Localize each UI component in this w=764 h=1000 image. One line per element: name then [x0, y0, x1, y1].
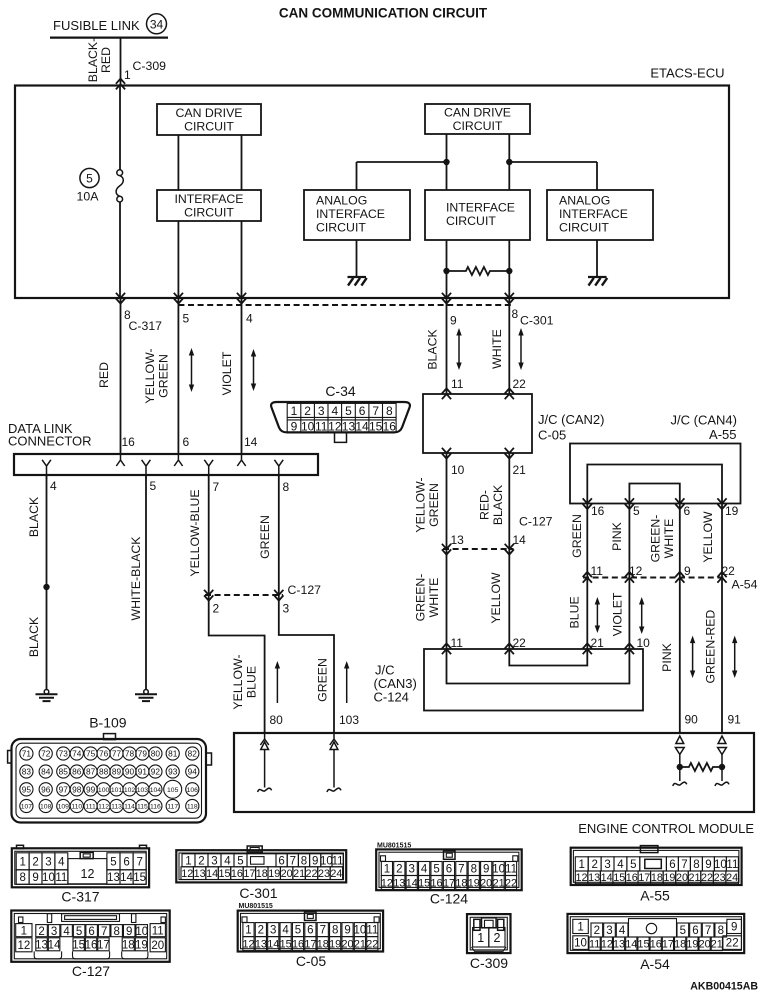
svg-text:20: 20: [281, 868, 293, 880]
svg-text:AKB00415AB: AKB00415AB: [690, 981, 758, 993]
J/C CAN3 inner bus (pins 22-21): [509, 649, 587, 666]
svg-text:4: 4: [50, 479, 57, 493]
svg-text:10: 10: [42, 872, 55, 884]
svg-text:1: 1: [384, 864, 390, 876]
svg-text:C-309: C-309: [470, 955, 508, 971]
ECM internal circuit continuation (pin 80): [258, 742, 272, 792]
svg-text:18: 18: [455, 877, 467, 889]
svg-text:C-301: C-301: [520, 314, 554, 328]
svg-text:95: 95: [22, 784, 32, 794]
svg-text:1: 1: [124, 68, 131, 82]
wire YELLOW-BLUE DLC pin 7: [208, 475, 210, 595]
svg-text:82: 82: [188, 749, 198, 759]
signal direction arrow e: [595, 597, 600, 633]
connector crossing arrows pin 5: [174, 293, 183, 304]
svg-text:GREEN: GREEN: [427, 483, 441, 527]
svg-text:WHITE: WHITE: [427, 578, 441, 618]
svg-text:13: 13: [451, 533, 465, 547]
svg-text:19: 19: [468, 877, 480, 889]
ECM terminal fork pin 80: [260, 733, 268, 745]
svg-text:88: 88: [99, 767, 109, 777]
svg-text:12: 12: [17, 940, 30, 952]
svg-text:10: 10: [637, 636, 651, 650]
connector C-127 crossing arrows pin 2: [204, 590, 213, 601]
svg-text:CIRCUIT: CIRCUIT: [316, 221, 366, 235]
svg-text:20: 20: [151, 940, 164, 952]
svg-text:13: 13: [194, 868, 206, 880]
svg-text:GREEN-: GREEN-: [649, 515, 663, 563]
svg-text:19: 19: [329, 938, 341, 950]
svg-text:CIRCUIT: CIRCUIT: [184, 206, 234, 220]
svg-text:MU801515: MU801515: [239, 903, 273, 910]
connector C-127 pictogram: [11, 911, 169, 962]
J/C CAN4 exit arrows pin 19: [717, 498, 726, 509]
svg-text:5: 5: [630, 859, 636, 871]
svg-text:1: 1: [245, 925, 251, 937]
svg-text:1: 1: [577, 922, 583, 934]
svg-text:5: 5: [633, 504, 640, 518]
junction dot ground wire: [43, 584, 49, 590]
svg-text:BLACK: BLACK: [27, 616, 41, 657]
wire WHITE-BLACK DLC pin 5 to ground: [145, 475, 147, 690]
svg-text:12: 12: [576, 872, 588, 884]
svg-text:11: 11: [589, 939, 600, 951]
svg-text:GREEN-RED: GREEN-RED: [704, 610, 718, 684]
svg-text:10: 10: [492, 864, 505, 876]
J/C CAN3 entry arrows pin 22: [505, 643, 514, 654]
dashed connector line C-317/C-301: [178, 304, 514, 306]
svg-text:6: 6: [669, 859, 675, 871]
C-127 crossing arrows pin 13: [442, 544, 451, 555]
wire YELLOW-BLUE jog to ECM pin 80: [209, 595, 265, 733]
svg-text:13: 13: [393, 877, 405, 889]
svg-text:1: 1: [477, 931, 484, 945]
svg-text:INTERFACE: INTERFACE: [174, 192, 243, 206]
wire color label BLACK-RED: [86, 38, 113, 82]
J/C CAN4 exit arrows pin 6: [675, 498, 684, 509]
svg-text:5: 5: [86, 172, 93, 186]
svg-text:22: 22: [505, 877, 517, 889]
wire color label YELLOW-GREEN (mid): [414, 477, 442, 532]
junction dot e: [677, 764, 683, 770]
svg-text:116: 116: [150, 804, 161, 811]
svg-text:19: 19: [686, 939, 698, 951]
svg-text:C-34: C-34: [325, 383, 356, 399]
wire PINK to ECM pin 90: [679, 578, 681, 734]
wire interface to pin 8: [508, 240, 510, 298]
svg-text:9: 9: [291, 420, 298, 434]
connector crossing arrows pin 8 C-301: [505, 293, 514, 304]
svg-text:100: 100: [98, 787, 110, 794]
svg-text:12: 12: [629, 564, 643, 578]
svg-text:16: 16: [85, 939, 98, 951]
svg-text:94: 94: [188, 767, 198, 777]
svg-text:ANALOG: ANALOG: [316, 194, 367, 208]
svg-text:16: 16: [122, 435, 136, 449]
wire interface to pin 4: [241, 221, 243, 298]
svg-text:4: 4: [63, 926, 70, 938]
fusible link bus bar: [50, 36, 168, 38]
svg-text:14: 14: [244, 435, 258, 449]
svg-text:22: 22: [722, 564, 736, 578]
svg-text:105: 105: [167, 787, 179, 794]
svg-text:2: 2: [213, 602, 220, 616]
connector C-34 pin grid: [287, 403, 396, 432]
svg-text:5: 5: [345, 404, 352, 418]
svg-text:A-54: A-54: [640, 956, 670, 972]
svg-text:24: 24: [330, 868, 342, 880]
svg-text:5: 5: [295, 925, 301, 937]
ECM internal circuit continuation (pin 103): [327, 742, 341, 792]
connector B-109 body: [8, 734, 212, 823]
svg-text:17: 17: [97, 939, 110, 951]
svg-text:7: 7: [290, 855, 296, 867]
svg-text:C-317: C-317: [61, 889, 99, 905]
svg-text:A-55: A-55: [709, 427, 736, 442]
svg-text:C-301: C-301: [239, 885, 277, 901]
svg-text:4: 4: [617, 859, 624, 871]
svg-text:4: 4: [224, 855, 231, 867]
svg-text:5: 5: [183, 312, 190, 326]
svg-text:6: 6: [446, 864, 452, 876]
ENGINE CONTROL MODULE box: [234, 733, 754, 812]
wire left analog interface to ground: [356, 240, 358, 277]
svg-text:21: 21: [493, 877, 505, 889]
svg-text:4: 4: [246, 312, 253, 326]
svg-text:14: 14: [48, 939, 61, 951]
ground (body earth) left: [36, 690, 58, 702]
svg-text:11: 11: [55, 872, 67, 884]
wire GREEN-RED to ECM pin 91: [721, 578, 723, 734]
svg-text:C-05: C-05: [296, 953, 327, 969]
svg-text:2: 2: [594, 925, 600, 937]
svg-text:16: 16: [626, 872, 638, 884]
svg-text:14: 14: [355, 420, 369, 434]
wire interface to pin 5: [177, 221, 179, 298]
DLC terminal fork pin 14: [237, 454, 245, 466]
connector C-301 pictogram: [176, 846, 346, 882]
wire BLUE to J/C (CAN3) pin 21: [586, 578, 588, 650]
svg-text:85: 85: [59, 767, 69, 777]
svg-text:YELLOW: YELLOW: [489, 572, 503, 624]
junction dot a: [443, 159, 449, 165]
svg-text:9: 9: [450, 314, 457, 328]
svg-text:10: 10: [451, 463, 465, 477]
svg-text:11: 11: [332, 855, 344, 867]
joint connector J/C (CAN2) C-05 box: [423, 394, 532, 453]
svg-text:110: 110: [71, 804, 82, 811]
svg-text:YELLOW: YELLOW: [701, 511, 715, 563]
svg-text:17: 17: [662, 939, 674, 951]
junction dot b: [506, 159, 512, 165]
svg-text:13: 13: [35, 939, 48, 951]
signal direction arrow h: [732, 636, 737, 678]
svg-text:11: 11: [366, 925, 378, 937]
svg-text:10: 10: [135, 926, 148, 938]
svg-text:6: 6: [692, 925, 698, 937]
svg-text:10: 10: [354, 925, 367, 937]
svg-text:3: 3: [51, 926, 57, 938]
svg-text:5: 5: [76, 926, 82, 938]
svg-text:C-309: C-309: [133, 59, 167, 73]
DLC terminal fork pin 6: [174, 454, 182, 466]
connector C-127 crossing arrows pin 3: [274, 590, 283, 601]
J/C CAN4 inner bus (pins 5-6): [629, 484, 679, 504]
svg-text:104: 104: [150, 787, 162, 794]
wire GREEN DLC pin 8: [278, 475, 280, 595]
wire CAN drive to interface (left a): [177, 135, 179, 190]
svg-text:13: 13: [613, 939, 625, 951]
svg-text:22: 22: [513, 377, 527, 391]
svg-text:C-124: C-124: [374, 690, 409, 705]
svg-text:BLUE: BLUE: [244, 666, 258, 698]
wire YELLOW A-55 to A-54: [721, 504, 723, 578]
svg-text:76: 76: [99, 749, 109, 759]
svg-text:9: 9: [684, 564, 691, 578]
svg-text:PINK: PINK: [610, 521, 624, 550]
svg-text:11: 11: [451, 636, 464, 650]
ETACS-ECU box: [15, 86, 729, 299]
svg-text:4: 4: [421, 864, 428, 876]
svg-text:79: 79: [138, 749, 148, 759]
svg-text:C-127: C-127: [72, 963, 110, 979]
svg-text:21: 21: [591, 636, 605, 650]
ANALOG INTERFACE CIRCUIT box (right): [547, 190, 653, 240]
signal direction arrow b: [251, 349, 256, 391]
svg-text:2: 2: [38, 926, 44, 938]
svg-text:103: 103: [339, 713, 359, 727]
signal direction arrow (green): [344, 661, 349, 703]
junction dot d: [506, 268, 512, 274]
terminating resistor (ETACS): [447, 267, 510, 275]
ECM terminal fork pin 103: [330, 733, 338, 745]
svg-text:17: 17: [243, 868, 255, 880]
svg-text:9: 9: [126, 926, 132, 938]
svg-text:78: 78: [125, 749, 135, 759]
svg-text:16: 16: [650, 939, 662, 951]
svg-text:WHITE-BLACK: WHITE-BLACK: [129, 536, 143, 621]
J/C CAN3 inner bus (pins 11-10): [447, 649, 630, 684]
svg-text:87: 87: [86, 767, 96, 777]
svg-text:20: 20: [480, 877, 492, 889]
svg-text:14: 14: [120, 872, 133, 884]
connector C-309 pictogram: [467, 914, 511, 953]
svg-text:11: 11: [315, 420, 328, 434]
svg-text:15: 15: [418, 877, 430, 889]
J/C CAN4 exit arrows pin 16: [583, 498, 592, 509]
svg-text:9: 9: [32, 872, 38, 884]
svg-text:16: 16: [591, 504, 605, 518]
connector C-124 pictogram: [376, 849, 522, 890]
signal direction arrow g: [690, 636, 695, 678]
svg-text:ENGINE CONTROL MODULE: ENGINE CONTROL MODULE: [578, 821, 754, 836]
svg-text:34: 34: [150, 17, 164, 31]
svg-text:YELLOW-: YELLOW-: [143, 348, 157, 403]
svg-text:18: 18: [651, 872, 663, 884]
svg-text:12: 12: [181, 868, 193, 880]
J/C CAN3 entry arrows pin 10: [625, 643, 634, 654]
wire VIOLET to DLC pin 14: [241, 298, 243, 454]
chassis ground (right analog): [588, 277, 607, 286]
svg-text:1: 1: [21, 925, 27, 937]
connector crossing arrows pin 4: [237, 293, 246, 304]
svg-text:3: 3: [606, 925, 612, 937]
svg-text:96: 96: [41, 784, 51, 794]
svg-text:J/C (CAN4): J/C (CAN4): [671, 413, 737, 428]
svg-text:24: 24: [726, 872, 738, 884]
svg-text:15: 15: [637, 939, 649, 951]
wire color label RED-BLACK: [478, 484, 506, 525]
svg-text:18: 18: [256, 868, 268, 880]
dashed connector line C-127: [205, 594, 283, 596]
svg-text:22: 22: [701, 872, 713, 884]
junction dot f: [719, 764, 725, 770]
svg-text:89: 89: [112, 767, 122, 777]
svg-text:2: 2: [198, 855, 204, 867]
svg-text:22: 22: [513, 636, 527, 650]
wire CAN drive to interface (right b): [508, 134, 510, 190]
wire YELLOW-GREEN to C-127: [446, 453, 448, 549]
svg-text:7: 7: [372, 404, 379, 418]
wire CAN drive to interface (right a): [446, 134, 448, 190]
svg-text:14: 14: [625, 939, 637, 951]
svg-text:14: 14: [513, 533, 527, 547]
svg-text:23: 23: [714, 872, 726, 884]
svg-text:75: 75: [86, 749, 96, 759]
svg-text:9: 9: [483, 864, 489, 876]
svg-text:C-05: C-05: [538, 428, 566, 443]
wire WHITE to J/C (CAN2): [508, 298, 510, 394]
svg-text:3: 3: [604, 859, 610, 871]
svg-text:83: 83: [22, 767, 32, 777]
svg-text:WHITE: WHITE: [490, 329, 504, 369]
data link connector box: [14, 454, 318, 475]
svg-text:6: 6: [359, 404, 366, 418]
svg-text:111: 111: [85, 804, 96, 811]
svg-text:7: 7: [213, 480, 220, 494]
J/C CAN2 entry arrows pin 22: [505, 388, 514, 399]
svg-text:84: 84: [41, 767, 51, 777]
svg-text:1: 1: [579, 859, 585, 871]
svg-text:PINK: PINK: [660, 642, 674, 671]
J/C CAN4 inner bus (pins 16-19): [587, 465, 722, 504]
svg-text:15: 15: [369, 420, 383, 434]
wire color label YELLOW-BLUE (lower): [231, 654, 258, 709]
svg-text:115: 115: [137, 804, 148, 811]
svg-text:6: 6: [88, 926, 94, 938]
wire BLACK to J/C (CAN2): [446, 298, 448, 394]
wire VIOLET to J/C (CAN3) pin 10: [628, 578, 630, 650]
wire GREEN-WHITE to J/C (CAN3): [446, 549, 448, 649]
svg-text:97: 97: [59, 784, 69, 794]
svg-text:3: 3: [409, 864, 415, 876]
svg-text:WHITE: WHITE: [662, 519, 676, 559]
svg-text:BLACK-: BLACK-: [86, 38, 100, 82]
wire RED to DLC pin 16: [120, 298, 122, 454]
svg-text:14: 14: [206, 868, 218, 880]
junction dot c: [443, 268, 449, 274]
svg-text:YELLOW-: YELLOW-: [414, 477, 428, 532]
svg-text:23: 23: [318, 868, 330, 880]
svg-text:2: 2: [32, 856, 38, 868]
svg-text:15: 15: [219, 868, 231, 880]
svg-text:CIRCUIT: CIRCUIT: [446, 214, 496, 228]
svg-text:98: 98: [72, 784, 82, 794]
joint connector J/C (CAN3) C-124 box: [424, 649, 643, 711]
svg-text:18: 18: [122, 939, 135, 951]
dashed connector line A-54: [583, 577, 727, 579]
svg-text:90: 90: [685, 713, 699, 727]
fuse number 5 circle: [80, 168, 99, 187]
J/C CAN2 exit arrows pin 21: [505, 448, 514, 459]
svg-text:8: 8: [512, 307, 519, 321]
svg-text:10A: 10A: [77, 190, 100, 204]
svg-text:19: 19: [135, 939, 148, 951]
wire GREEN A-55 to A-54: [586, 504, 588, 578]
connector crossing arrows pin 9: [442, 293, 451, 304]
svg-text:19: 19: [663, 872, 675, 884]
svg-text:YELLOW-: YELLOW-: [231, 654, 245, 709]
svg-text:CIRCUIT: CIRCUIT: [184, 120, 234, 134]
signal direction arrow c: [456, 328, 461, 370]
svg-text:CONNECTOR: CONNECTOR: [8, 434, 92, 449]
fuse 5 (10A) symbol on wire: [116, 86, 123, 299]
svg-text:VIOLET: VIOLET: [220, 351, 234, 395]
svg-text:A-55: A-55: [640, 888, 670, 904]
svg-text:8: 8: [471, 864, 477, 876]
svg-text:16: 16: [431, 877, 443, 889]
svg-text:5: 5: [433, 864, 439, 876]
svg-text:92: 92: [151, 767, 161, 777]
svg-text:J/C (CAN2): J/C (CAN2): [538, 412, 604, 427]
svg-text:INTERFACE: INTERFACE: [316, 207, 385, 221]
svg-text:8: 8: [113, 926, 119, 938]
DLC terminal fork pin 16: [116, 454, 124, 466]
svg-text:5: 5: [237, 855, 243, 867]
svg-text:15: 15: [133, 872, 146, 884]
svg-text:12: 12: [601, 939, 613, 951]
svg-text:112: 112: [98, 804, 109, 811]
connector crossing arrows pin 8: [116, 293, 125, 304]
svg-text:9: 9: [344, 925, 350, 937]
svg-text:21: 21: [711, 939, 723, 951]
svg-text:GREEN: GREEN: [570, 514, 584, 558]
svg-text:19: 19: [725, 504, 739, 518]
INTERFACE CIRCUIT box (middle): [425, 190, 530, 240]
svg-text:YELLOW-BLUE: YELLOW-BLUE: [188, 489, 202, 576]
connector A-55 pictogram: [571, 846, 742, 885]
svg-text:6: 6: [123, 856, 129, 868]
svg-text:106: 106: [187, 787, 199, 794]
svg-text:91: 91: [138, 767, 148, 777]
connector C-05 pictogram: [238, 911, 383, 952]
svg-text:71: 71: [22, 749, 32, 759]
svg-text:9: 9: [705, 859, 711, 871]
svg-text:CAN DRIVE: CAN DRIVE: [176, 106, 243, 120]
J/C CAN2 entry arrows pin 11: [442, 388, 451, 399]
svg-text:10: 10: [714, 859, 727, 871]
svg-text:3: 3: [318, 404, 325, 418]
connector B-109 pin circles 71-118: [20, 747, 199, 813]
connector C-34 bottom tab: [335, 432, 347, 442]
DLC terminal fork pin 7: [204, 460, 213, 479]
svg-text:6: 6: [684, 504, 691, 518]
svg-text:73: 73: [59, 749, 69, 759]
svg-text:16: 16: [292, 938, 304, 950]
svg-text:117: 117: [167, 804, 178, 811]
svg-text:18: 18: [317, 938, 329, 950]
svg-text:B-109: B-109: [89, 715, 127, 731]
